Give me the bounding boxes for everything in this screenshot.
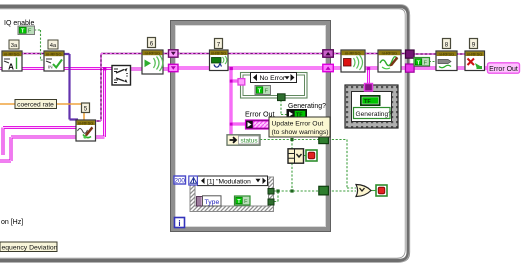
while loop right shift register (error)	[323, 64, 334, 71]
while loop right green tunnel 1	[319, 135, 329, 144]
svg-text:Error Out: Error Out	[489, 66, 518, 73]
free label Frequency Deviation	[0, 242, 58, 252]
outer frame tunnel (error, magenta)	[406, 64, 415, 72]
svg-text:(to show warnings): (to show warnings)	[272, 129, 329, 136]
wire session inside while loop y53	[178, 53, 323, 55]
svg-text:ni-RFSG: ni-RFSG	[46, 52, 62, 57]
svg-text:ni-RFSG: ni-RFSG	[382, 51, 398, 56]
svg-text:Generating?: Generating?	[288, 103, 326, 110]
svg-text:status: status	[241, 138, 258, 145]
boolean constant IQ enable TF	[18, 26, 35, 35]
local variable Generating in flat sequence	[361, 96, 381, 106]
wire green status to OR gate top	[328, 140, 356, 189]
wire error branch to error-out local y124	[231, 123, 246, 126]
wire green status row y139	[260, 140, 319, 150]
svg-text:8: 8	[445, 41, 449, 48]
wire session outside frame to close VIs y54	[414, 53, 466, 55]
wire green unbundle down and row y191	[274, 163, 319, 191]
svg-text:ni-RFSG: ni-RFSG	[145, 51, 161, 56]
flat sequence input tunnel	[365, 84, 373, 92]
svg-text:7: 7	[217, 41, 221, 48]
wire error merge to while loop y69	[130, 68, 171, 71]
unbundle array node (v)	[288, 149, 304, 163]
wire orange coerced rate y104	[0, 104, 84, 121]
local variable Generating (write)	[287, 110, 307, 119]
boolean constant event TF	[235, 196, 251, 205]
VI icon abort (red square + waves)	[341, 50, 365, 72]
while loop left shift register (error)	[169, 64, 179, 71]
junction dot green (292,191)	[290, 189, 293, 192]
outer sequence frame border	[0, 5, 409, 263]
junction dot (231,124)	[230, 123, 233, 126]
wire error-cluster main row y68 (left rail to merge)	[0, 67, 113, 70]
flat sequence frame (filmstrip)	[345, 85, 398, 128]
junction dot (368.5,68)	[367, 67, 370, 70]
svg-text:4a: 4a	[50, 43, 57, 49]
numeric constant 200	[174, 176, 186, 184]
merge errors node	[112, 66, 131, 86]
svg-text:Generating?: Generating?	[356, 111, 393, 118]
indicator label Error Out	[488, 63, 520, 73]
while loop iteration terminal i	[175, 218, 185, 229]
wire session row y53.5 left (icon1 to icon2)	[22, 53, 44, 55]
junction dot green (292,139.5)	[290, 138, 293, 141]
step label 5	[82, 103, 90, 113]
VI icon 4a niRFSG configure (check)	[44, 51, 64, 71]
svg-text:ni-RFSG: ni-RFSG	[439, 52, 455, 57]
event selector	[198, 176, 268, 186]
svg-text:5: 5	[84, 105, 88, 112]
wire green event TF to tunnel and up	[250, 191, 278, 202]
stop terminal 1	[306, 150, 317, 161]
VI icon 6 niRFSG initiate	[142, 50, 163, 74]
svg-text:200: 200	[175, 177, 186, 184]
VI icon close generation (scribble + pencil)	[378, 50, 401, 72]
free label Update Error Out (to show warnings)	[269, 117, 330, 137]
event structure Modulation	[190, 177, 274, 212]
junction dot green (278,191)	[276, 189, 279, 192]
status unbundle node	[227, 135, 260, 145]
svg-text:TF: TF	[364, 99, 371, 105]
step label 8	[443, 39, 451, 49]
step label 9	[470, 39, 478, 49]
wire error branch to case tunnel y81	[231, 80, 241, 83]
step label 7	[215, 39, 223, 49]
wire session from waveform VI up and right to initiate x101	[95, 54, 171, 122]
svg-text:ni-RFSG: ni-RFSG	[345, 51, 361, 56]
svg-text:i: i	[178, 219, 180, 228]
VI icon close (red X)	[465, 51, 485, 71]
junction dot (104.5,69)	[103, 67, 106, 70]
while loop right green tunnel 2	[319, 186, 329, 195]
svg-text:[1] "Modulation: [1] "Modulation	[207, 179, 251, 186]
svg-text:ni-RFSG: ni-RFSG	[78, 121, 94, 126]
junction dot (231,81)	[230, 80, 233, 83]
case structure No Error	[241, 73, 308, 99]
wire green unbundle out to stop terminal	[303, 155, 306, 157]
event tunnel T2	[268, 199, 274, 205]
wire error drop to flat sequence x368.5	[367, 69, 370, 85]
while loop left shift register (session)	[169, 50, 179, 57]
VI icon update	[436, 51, 457, 71]
wire green OR out to stop terminal 2	[371, 190, 376, 192]
case selector No Error	[251, 73, 297, 83]
OR gate	[356, 185, 371, 197]
wire error right of while loop y68	[334, 67, 407, 70]
while loop right shift register (session)	[323, 50, 334, 57]
step label 3a	[9, 40, 19, 49]
step label 6	[148, 38, 156, 48]
wire green case tunnel to Generating local	[281, 100, 287, 115]
svg-text:No Error: No Error	[260, 75, 286, 82]
wire error row2 under waveform VI y137	[0, 137, 105, 161]
stop terminal 2	[376, 185, 387, 196]
step label 4a	[48, 40, 58, 49]
VI icon 7 niRFSG check generation status	[210, 50, 229, 71]
event tunnel T1	[268, 189, 274, 195]
svg-text:ni-RFSG: ni-RFSG	[211, 51, 227, 56]
wire case TF to bottom tunnel	[270, 91, 282, 95]
svg-text:IN: IN	[48, 65, 53, 70]
VI icon 5 niRFSG write waveform	[76, 120, 96, 141]
wire green y191 to OR gate bottom	[328, 190, 356, 192]
svg-text:Type: Type	[205, 199, 220, 206]
svg-text:A: A	[8, 63, 14, 72]
svg-text:Update Error Out: Update Error Out	[272, 120, 324, 127]
wire green boolean from IQ enable constant	[34, 30, 44, 60]
while loop border	[171, 21, 331, 232]
svg-text:3a: 3a	[11, 43, 18, 49]
svg-text:9: 9	[472, 41, 476, 48]
label Generating? in flat sequence	[354, 108, 393, 119]
wire green TF const to update VI	[429, 61, 436, 63]
wire error into waveform VI y127.5	[3, 128, 76, 156]
label coerced rate	[15, 100, 57, 109]
wire error branch down to waveform VI (vertical x104.5)	[103, 69, 106, 137]
wire session right of while loop y53.5	[334, 53, 406, 55]
wire error vertical branch x231 inside loop	[230, 68, 233, 135]
wait ms timer icon	[189, 176, 198, 185]
local variable Error Out	[246, 120, 271, 129]
wire error inside while loop y68	[178, 67, 323, 70]
case bottom tunnel	[278, 94, 286, 101]
outer frame tunnel (session, dark)	[406, 50, 415, 58]
svg-text:equency Deviation: equency Deviation	[2, 244, 58, 251]
case left tunnel (error in)	[238, 79, 245, 85]
svg-text:coerced rate: coerced rate	[17, 102, 54, 109]
svg-text:on [Hz]: on [Hz]	[1, 219, 23, 226]
boolean constant reset TF	[414, 58, 430, 67]
wire magenta flat-seq tunnel to local	[368, 90, 370, 96]
junction dot (231,68)	[230, 67, 233, 70]
svg-text:ni-RFSG: ni-RFSG	[467, 52, 483, 57]
svg-text:ni-RFSG: ni-RFSG	[4, 52, 20, 57]
VI icon 3a niRFSG configure (letter A)	[2, 51, 22, 72]
svg-text:6: 6	[150, 40, 154, 47]
wire error outside frame to Error Out y68	[414, 67, 488, 70]
boolean constant in case TF	[255, 86, 271, 95]
terminal Type	[197, 196, 222, 206]
wire purple session drop from icon2 to waveform VI	[63, 54, 78, 122]
